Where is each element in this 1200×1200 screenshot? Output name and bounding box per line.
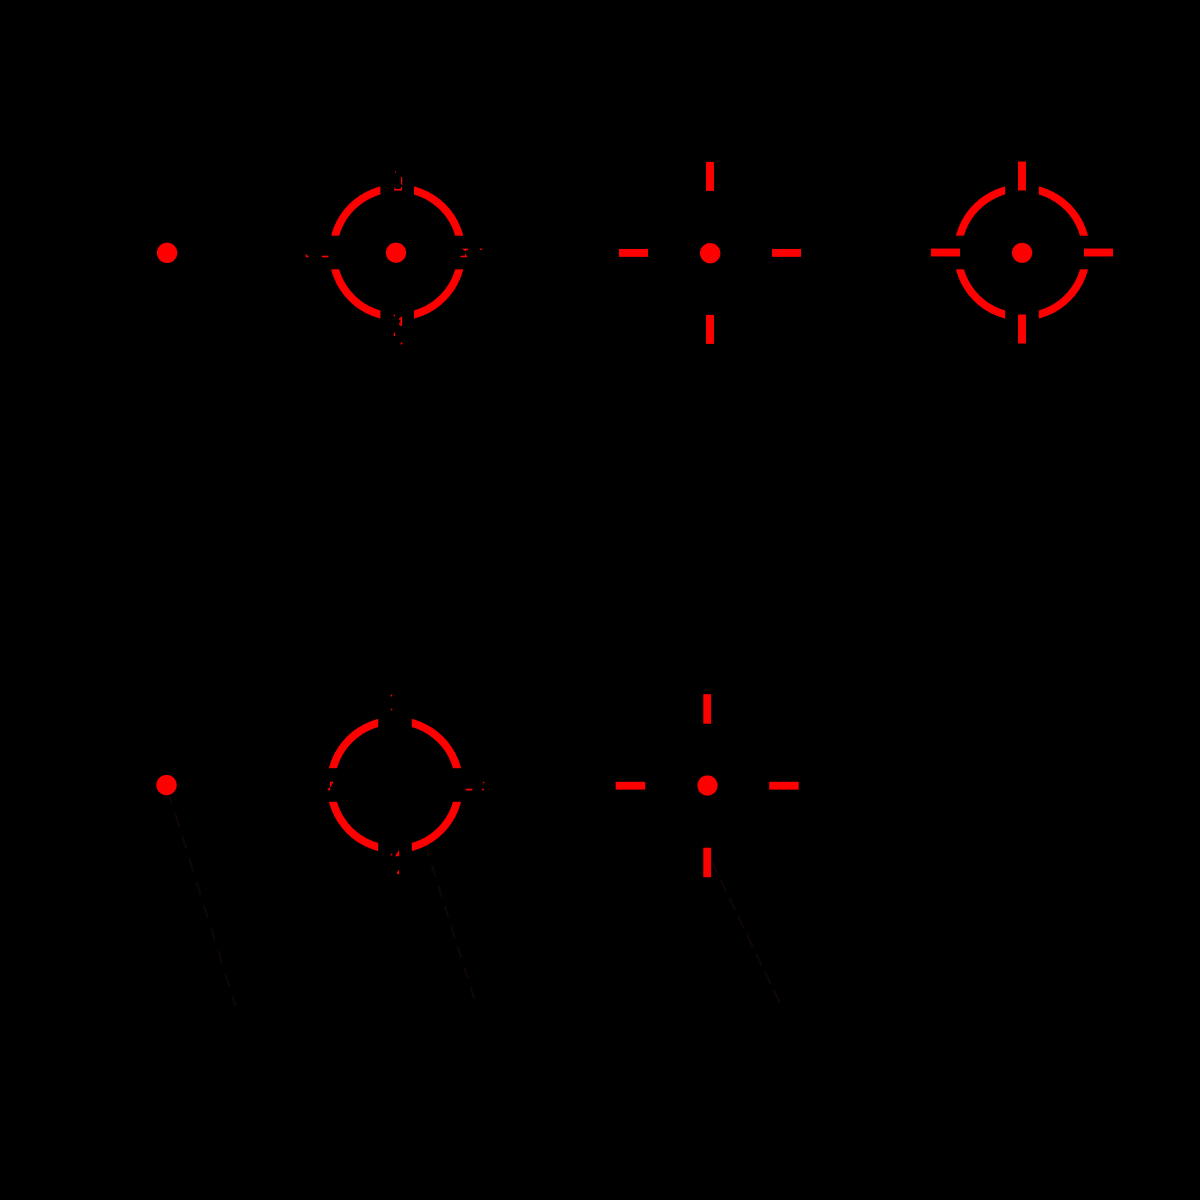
reticle B: ring gap masks <box>327 182 468 323</box>
reticle F: ring gap masks <box>324 714 465 855</box>
leader line from reticle F ring <box>427 851 476 1006</box>
reticle B: top tick fragments <box>394 172 402 191</box>
reticle D: center dot <box>1012 243 1032 263</box>
reticle C: right tick <box>772 249 801 257</box>
leader line from reticle G bottom tick <box>712 861 782 1006</box>
reticle D: ring gap masks <box>951 182 1092 323</box>
reticle G: bottom tick <box>703 848 711 878</box>
reticle F: right tick fragments <box>466 782 485 791</box>
reticle G: left tick <box>616 782 646 790</box>
reticle F: bottom tick fragments <box>391 850 400 874</box>
reticle B: segmented ring <box>333 188 462 317</box>
reticle C: left tick <box>619 249 648 257</box>
leader line from reticle E dot <box>170 797 236 1007</box>
reticle A: red dot <box>157 243 177 263</box>
reticle B: center dot <box>386 243 406 263</box>
reticle D: bottom tick <box>1018 315 1026 344</box>
reticle G: top tick <box>703 694 711 724</box>
reticle E: red dot <box>156 775 176 795</box>
reticle F: top tick fragments <box>391 695 393 711</box>
reticle B: bottom tick fragments <box>394 315 403 345</box>
reticle G: center dot <box>697 775 717 795</box>
reticle D: left tick <box>931 249 960 257</box>
reticle C: top tick <box>706 162 714 191</box>
reticle B: right tick fragments <box>460 249 482 258</box>
reticle D: right tick <box>1084 249 1113 257</box>
reticle D: top tick <box>1018 162 1026 191</box>
reticle F: segmented ring <box>331 721 460 850</box>
reticle D: segmented ring <box>958 188 1087 317</box>
reticle C: center dot <box>700 243 720 263</box>
reticle G: right tick <box>769 782 799 790</box>
reticle F: left tick fragments <box>328 782 333 791</box>
reticle C: bottom tick <box>706 315 714 344</box>
reticle B: left tick fragments <box>306 254 329 257</box>
